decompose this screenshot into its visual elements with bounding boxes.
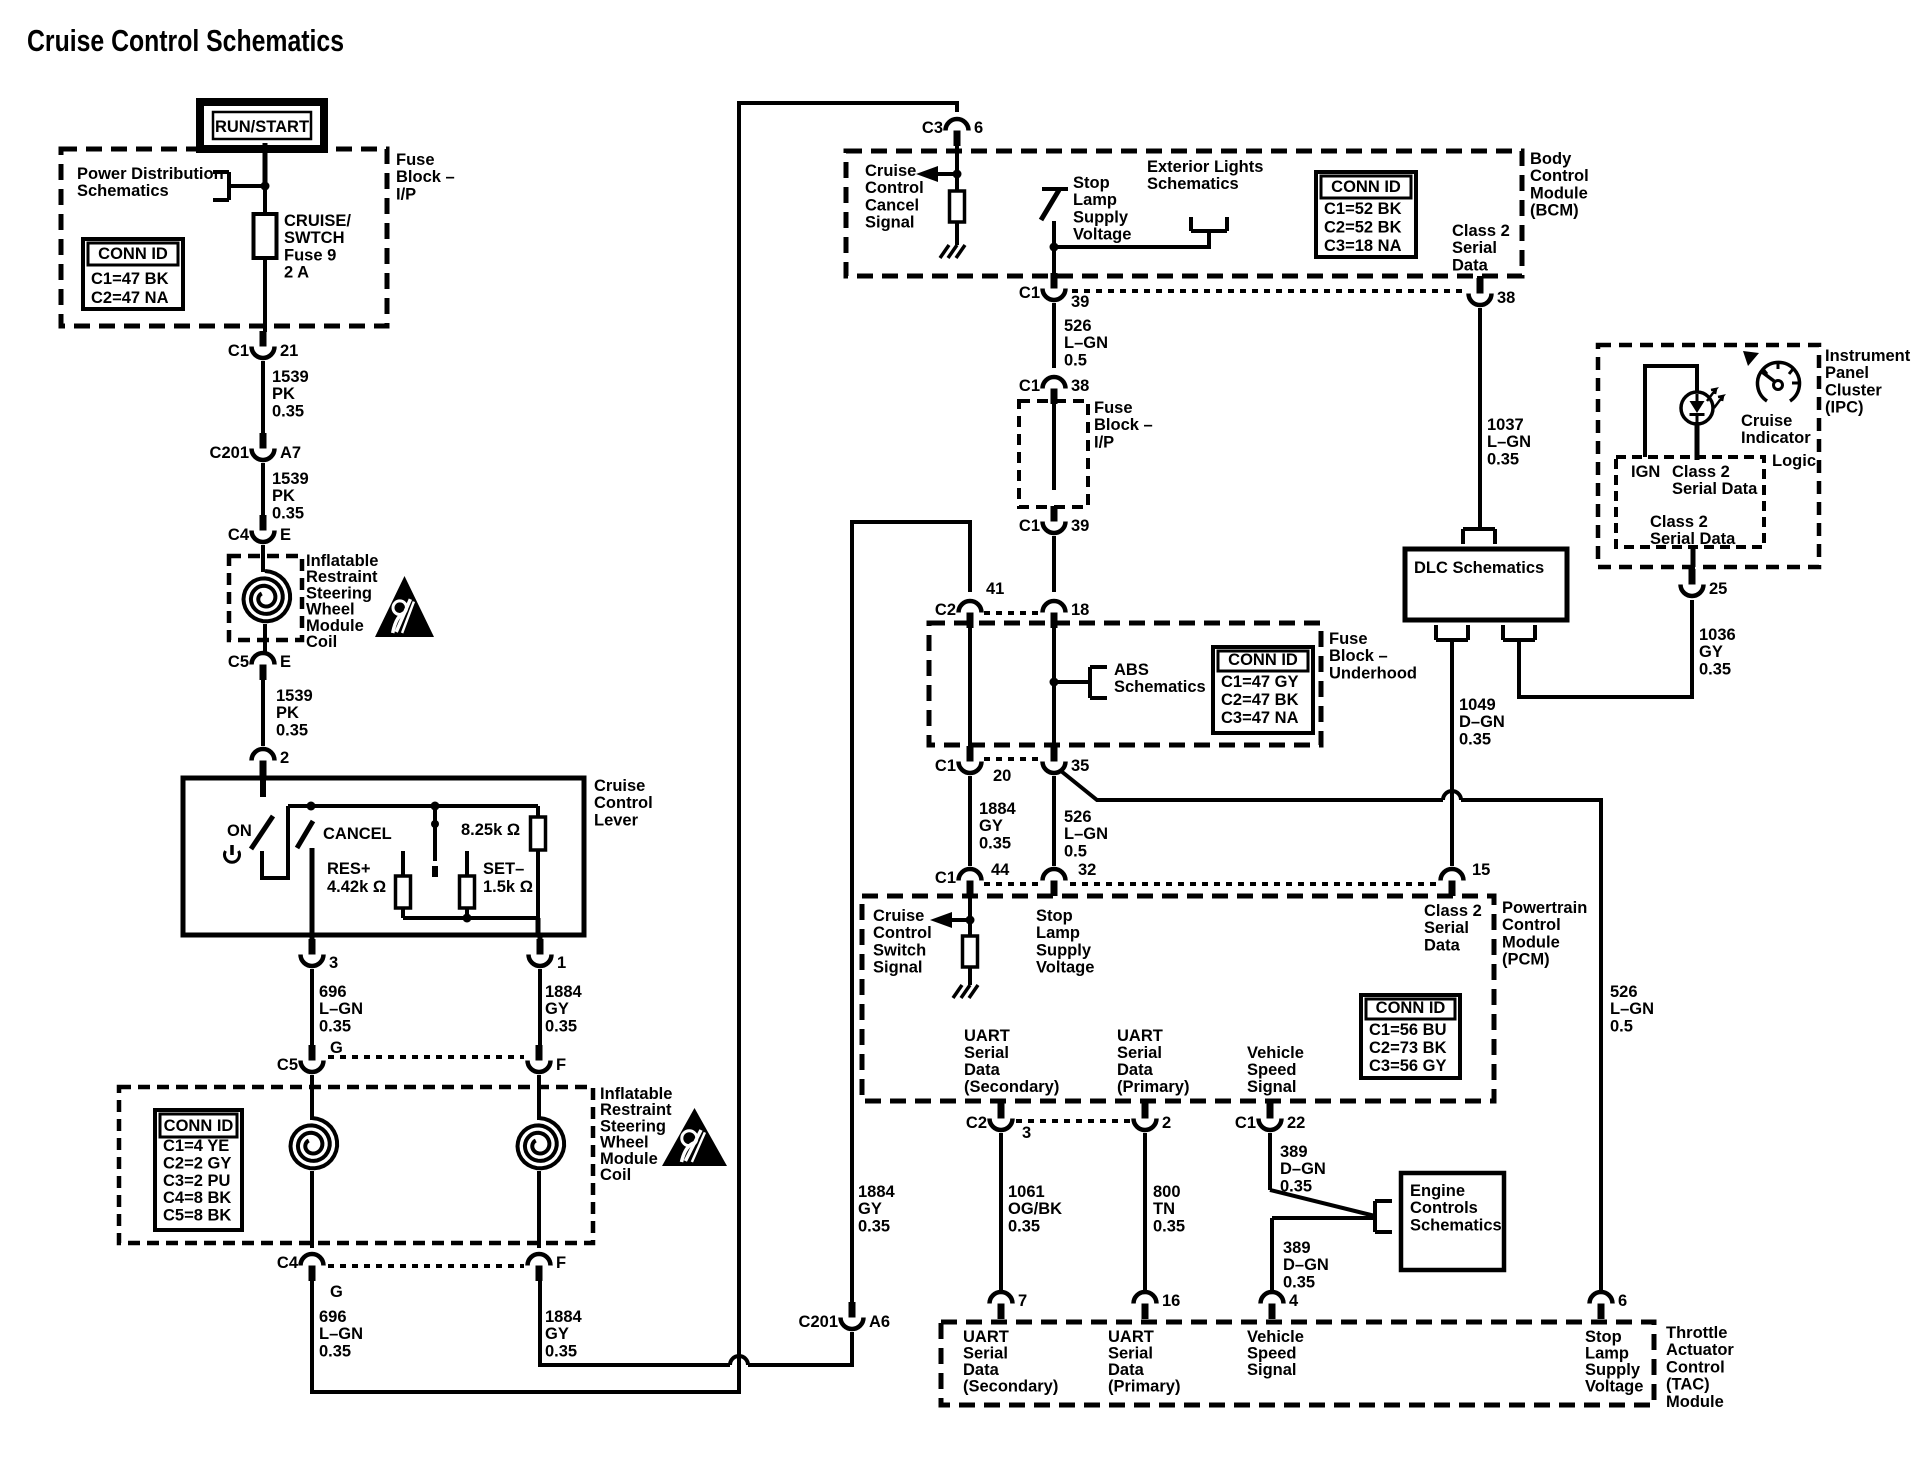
svg-text:C4=8 BK: C4=8 BK bbox=[163, 1189, 231, 1207]
svg-text:0.35: 0.35 bbox=[1487, 450, 1519, 468]
resistor PCM switch signal bbox=[963, 936, 978, 967]
svg-text:L–GN: L–GN bbox=[1487, 433, 1531, 451]
svg-text:L–GN: L–GN bbox=[319, 1000, 363, 1018]
svg-text:Coil: Coil bbox=[306, 633, 337, 651]
wire 1061 OG/BK bbox=[999, 1133, 1003, 1291]
svg-text:2: 2 bbox=[1162, 1114, 1171, 1132]
svg-text:C1: C1 bbox=[1235, 1114, 1256, 1132]
svg-text:PK: PK bbox=[276, 704, 299, 722]
resistor 4.42k RES+ bbox=[396, 876, 411, 908]
svg-text:38: 38 bbox=[1071, 377, 1089, 395]
wire 18 through underhood bbox=[1052, 628, 1056, 746]
svg-text:Control: Control bbox=[873, 924, 932, 942]
connector lever pin 2 bbox=[252, 749, 290, 776]
svg-text:(IPC): (IPC) bbox=[1825, 399, 1864, 417]
module box Fuse Block - Underhood bbox=[929, 623, 1321, 745]
wire RUN/START to fuse bbox=[263, 143, 268, 186]
svg-text:D–GN: D–GN bbox=[1280, 1160, 1326, 1178]
svg-text:CONN ID: CONN ID bbox=[98, 245, 168, 263]
svg-text:Vehicle: Vehicle bbox=[1247, 1328, 1304, 1346]
label Class 2 Serial Data (IPC lower) bbox=[1650, 513, 1736, 548]
svg-text:Stop: Stop bbox=[1585, 1328, 1622, 1346]
connector dashed line C1-39 to 38 bbox=[1072, 289, 1464, 293]
svg-text:UART: UART bbox=[1108, 1328, 1154, 1346]
svg-text:Serial: Serial bbox=[1108, 1345, 1153, 1363]
svg-text:Cruise: Cruise bbox=[594, 777, 645, 795]
wire C201-A6 to C2-41 bbox=[852, 522, 970, 1302]
wire pin1 to F bbox=[538, 969, 542, 1046]
svg-text:Powertrain: Powertrain bbox=[1502, 899, 1587, 917]
svg-text:Module: Module bbox=[1502, 933, 1560, 951]
svg-text:0.35: 0.35 bbox=[858, 1217, 890, 1235]
wire coil lower-right out bbox=[537, 1171, 541, 1248]
svg-text:Block –: Block – bbox=[396, 168, 455, 186]
wire to exterior lights bbox=[1054, 231, 1209, 247]
wire ON lower contact loop bbox=[262, 806, 288, 878]
switch ON blade bbox=[251, 816, 273, 849]
svg-text:C5=8 BK: C5=8 BK bbox=[163, 1207, 231, 1225]
connector BCM pin 38 bbox=[1469, 278, 1516, 307]
svg-text:Signal: Signal bbox=[873, 959, 923, 977]
svg-text:C2=47 NA: C2=47 NA bbox=[91, 289, 169, 307]
ground BCM bbox=[940, 245, 965, 258]
svg-text:G: G bbox=[330, 1283, 343, 1301]
svg-text:(Primary): (Primary) bbox=[1117, 1078, 1189, 1096]
svg-text:DLC Schematics: DLC Schematics bbox=[1414, 559, 1544, 577]
LED emission arrows bbox=[1707, 389, 1723, 408]
wire SET to rail bbox=[465, 908, 469, 918]
connector C1 pin 38 (fuse block IP) bbox=[1019, 377, 1089, 404]
svg-text:C1=4 YE: C1=4 YE bbox=[163, 1137, 229, 1155]
connector TAC pin 16 bbox=[1134, 1292, 1181, 1319]
connector C201 pin A7 bbox=[210, 433, 302, 462]
wire C5G into coil box bbox=[310, 1075, 314, 1120]
connector TAC pin 4 bbox=[1261, 1292, 1300, 1319]
svg-text:Class 2: Class 2 bbox=[1424, 902, 1482, 920]
connector C3 pin 6 bbox=[922, 119, 983, 146]
svg-text:0.5: 0.5 bbox=[1610, 1017, 1633, 1035]
junction power distribution tap bbox=[261, 182, 270, 191]
wire resistor to PCM ground bbox=[968, 967, 972, 985]
svg-text:25: 25 bbox=[1709, 580, 1727, 598]
svg-text:UART: UART bbox=[1117, 1027, 1163, 1045]
resistor 8.25k bbox=[531, 817, 546, 850]
svg-text:Block –: Block – bbox=[1329, 647, 1388, 665]
svg-text:4.42k Ω: 4.42k Ω bbox=[327, 878, 386, 896]
module box Cruise Control Lever bbox=[183, 778, 584, 935]
svg-text:2 A: 2 A bbox=[284, 264, 309, 282]
svg-text:Schematics: Schematics bbox=[77, 182, 169, 200]
svg-text:Logic: Logic bbox=[1772, 452, 1816, 470]
conn id table underhood C1=47GY C2=47BK C3=47NA bbox=[1213, 647, 1313, 733]
svg-text:39: 39 bbox=[1071, 293, 1089, 311]
svg-text:6: 6 bbox=[1618, 1292, 1627, 1310]
svg-text:Power Distribution: Power Distribution bbox=[77, 165, 224, 183]
connector C1 pin 21 bbox=[228, 331, 298, 360]
svg-text:16: 16 bbox=[1162, 1292, 1180, 1310]
connector C1 pin 20 bbox=[935, 746, 982, 775]
terminal stub DLC bottom right bbox=[1503, 625, 1535, 640]
connector PCM C1 pin 22 bbox=[1235, 1103, 1305, 1132]
wire through fuse block IP bbox=[1052, 403, 1056, 490]
wire coil to C5 bbox=[263, 624, 267, 655]
svg-text:1884: 1884 bbox=[545, 983, 583, 1001]
svg-text:7: 7 bbox=[1018, 1292, 1027, 1310]
svg-text:C2=47 BK: C2=47 BK bbox=[1221, 691, 1299, 709]
svg-text:F: F bbox=[556, 1254, 566, 1272]
svg-text:C3=18 NA: C3=18 NA bbox=[1324, 237, 1402, 255]
wire 39 to 18 bbox=[1052, 536, 1056, 592]
svg-text:TN: TN bbox=[1153, 1200, 1175, 1218]
wire IGN bbox=[1645, 366, 1697, 457]
svg-text:526: 526 bbox=[1064, 317, 1092, 335]
svg-text:1884: 1884 bbox=[979, 800, 1017, 818]
svg-text:D–GN: D–GN bbox=[1283, 1256, 1329, 1274]
junction center bus bbox=[431, 802, 440, 811]
junction rail SET bbox=[463, 914, 472, 923]
wire C201 to C4 bbox=[261, 463, 265, 516]
svg-text:1049: 1049 bbox=[1459, 696, 1496, 714]
wire 800 TN bbox=[1143, 1133, 1147, 1291]
module box SWM coil (upper) bbox=[229, 556, 302, 640]
svg-text:0.35: 0.35 bbox=[276, 721, 308, 739]
svg-text:44: 44 bbox=[991, 861, 1010, 879]
svg-text:Signal: Signal bbox=[865, 214, 915, 232]
connector C2 pin 41 bbox=[935, 601, 982, 628]
svg-text:Supply: Supply bbox=[1585, 1361, 1641, 1379]
svg-text:Schematics: Schematics bbox=[1410, 1216, 1502, 1234]
svg-text:1539: 1539 bbox=[272, 368, 309, 386]
connector dashed line 20-35 bbox=[984, 757, 1040, 761]
wire F into coil box bbox=[537, 1075, 541, 1120]
connector C5 pin G bbox=[277, 1045, 324, 1074]
svg-text:PK: PK bbox=[272, 487, 295, 505]
svg-text:Serial: Serial bbox=[963, 1345, 1008, 1363]
svg-text:C1=47 GY: C1=47 GY bbox=[1221, 673, 1299, 691]
connector C1 pin 39 (fuse block IP out) bbox=[1019, 506, 1089, 535]
wire BCM38 to DLC bbox=[1478, 308, 1482, 529]
svg-text:6: 6 bbox=[974, 119, 983, 137]
svg-text:3: 3 bbox=[1022, 1124, 1031, 1142]
label Class 2 Serial Data (IPC upper) bbox=[1672, 463, 1758, 498]
svg-text:1884: 1884 bbox=[545, 1308, 583, 1326]
svg-text:UART: UART bbox=[964, 1027, 1010, 1045]
wire rail to pin 1 bbox=[536, 918, 541, 933]
svg-text:L–GN: L–GN bbox=[319, 1325, 363, 1343]
connector C201 pin A6 bbox=[799, 1302, 891, 1331]
switch stop lamp bbox=[1041, 189, 1068, 220]
svg-text:0.35: 0.35 bbox=[1283, 1273, 1315, 1291]
svg-text:PK: PK bbox=[272, 385, 295, 403]
svg-text:39: 39 bbox=[1071, 517, 1089, 535]
box Engine Controls Schematics bbox=[1401, 1173, 1504, 1270]
svg-text:E: E bbox=[280, 526, 291, 544]
wire 389 to engine controls bbox=[1270, 1133, 1375, 1291]
arrow cruise control cancel signal bbox=[916, 166, 957, 182]
svg-text:Fuse: Fuse bbox=[396, 151, 435, 169]
svg-text:Voltage: Voltage bbox=[1585, 1378, 1643, 1396]
svg-text:CRUISE/: CRUISE/ bbox=[284, 212, 351, 230]
svg-text:C1=52 BK: C1=52 BK bbox=[1324, 200, 1402, 218]
svg-text:ABS: ABS bbox=[1114, 661, 1149, 679]
connector C1 pin 44 bbox=[935, 869, 982, 896]
module box Throttle Actuator Control TAC bbox=[941, 1322, 1654, 1405]
svg-text:(BCM): (BCM) bbox=[1530, 202, 1579, 220]
svg-text:D–GN: D–GN bbox=[1459, 713, 1505, 731]
connector IPC pin 25 bbox=[1681, 569, 1728, 598]
connector pin 35 bbox=[1043, 746, 1090, 775]
module box DLC Schematics bbox=[1405, 549, 1567, 620]
svg-text:I/P: I/P bbox=[1094, 433, 1114, 451]
connector BCM C1 pin 39 bbox=[1019, 273, 1089, 311]
wire stop lamp switch down bbox=[1052, 221, 1056, 281]
svg-text:Cluster: Cluster bbox=[1825, 381, 1882, 399]
module box Instrument Panel Cluster IPC bbox=[1598, 345, 1819, 567]
svg-text:Lamp: Lamp bbox=[1073, 191, 1117, 209]
wire 44 into PCM bbox=[968, 897, 972, 920]
svg-text:Stop: Stop bbox=[1036, 907, 1073, 925]
svg-text:(Secondary): (Secondary) bbox=[963, 1378, 1058, 1396]
wire bottom rail bbox=[403, 916, 538, 920]
wire C1-21 to C201 bbox=[261, 361, 265, 434]
wire 8.25k to rail bbox=[536, 850, 540, 918]
svg-text:Schematics: Schematics bbox=[1147, 175, 1239, 193]
svg-text:0.35: 0.35 bbox=[979, 834, 1011, 852]
svg-text:0.35: 0.35 bbox=[272, 402, 304, 420]
svg-text:SET–: SET– bbox=[483, 860, 524, 878]
connector dashed line C5-F bbox=[328, 1055, 524, 1059]
svg-text:20: 20 bbox=[993, 767, 1011, 785]
svg-text:35: 35 bbox=[1071, 757, 1089, 775]
switch CANCEL blade bbox=[297, 821, 313, 848]
resistor 1.5k SET- bbox=[460, 876, 475, 908]
resistor BCM cancel pull bbox=[950, 191, 965, 222]
svg-text:Control: Control bbox=[594, 794, 653, 812]
gauge icon speedometer bbox=[1743, 351, 1800, 401]
wire bus bbox=[288, 804, 538, 808]
module box Body Control Module BCM bbox=[846, 151, 1522, 276]
svg-text:CONN ID: CONN ID bbox=[1228, 651, 1298, 669]
wire PCM pin C2-3 stub bbox=[998, 1101, 1004, 1106]
svg-text:Cruise: Cruise bbox=[873, 907, 924, 925]
svg-text:C1: C1 bbox=[1019, 284, 1040, 302]
connector C4 pin G bbox=[277, 1254, 324, 1281]
svg-text:Supply: Supply bbox=[1036, 941, 1092, 959]
svg-text:Class 2: Class 2 bbox=[1672, 463, 1730, 481]
svg-text:C2=52 BK: C2=52 BK bbox=[1324, 218, 1402, 236]
wire 41 through underhood bbox=[968, 628, 972, 746]
svg-text:0.35: 0.35 bbox=[319, 1017, 351, 1035]
svg-text:Speed: Speed bbox=[1247, 1345, 1297, 1363]
svg-text:38: 38 bbox=[1497, 289, 1515, 307]
svg-text:L–GN: L–GN bbox=[1610, 1000, 1654, 1018]
svg-text:C1: C1 bbox=[228, 342, 249, 360]
svg-text:C2=2 GY: C2=2 GY bbox=[163, 1154, 231, 1172]
svg-text:Lever: Lever bbox=[594, 811, 639, 829]
svg-text:800: 800 bbox=[1153, 1183, 1181, 1201]
svg-text:Serial Data: Serial Data bbox=[1672, 480, 1758, 498]
svg-text:Serial: Serial bbox=[1424, 919, 1469, 937]
svg-text:C1: C1 bbox=[1019, 517, 1040, 535]
svg-text:0.35: 0.35 bbox=[319, 1342, 351, 1360]
svg-text:Stop: Stop bbox=[1073, 174, 1110, 192]
junction exterior lights tap bbox=[1050, 243, 1059, 252]
svg-text:3: 3 bbox=[329, 954, 338, 972]
wire 35 to 32 bbox=[1052, 776, 1056, 866]
svg-text:696: 696 bbox=[319, 1308, 347, 1326]
svg-text:0.35: 0.35 bbox=[1153, 1217, 1185, 1235]
svg-text:Class 2: Class 2 bbox=[1452, 222, 1510, 240]
svg-text:E: E bbox=[280, 653, 291, 671]
label Cruise Indicator Logic bbox=[1741, 412, 1816, 470]
svg-text:(PCM): (PCM) bbox=[1502, 951, 1550, 969]
svg-text:Block –: Block – bbox=[1094, 416, 1153, 434]
conn id table BCM C1=52BK C2=52BK C3=18NA bbox=[1316, 172, 1416, 257]
wire bus to 8.25k resistor bbox=[536, 806, 540, 818]
wire coil lower-left out bbox=[310, 1171, 314, 1248]
svg-text:1.5k Ω: 1.5k Ω bbox=[483, 878, 533, 896]
svg-text:Signal: Signal bbox=[1247, 1361, 1297, 1379]
svg-text:1884: 1884 bbox=[858, 1183, 896, 1201]
svg-text:RES+: RES+ bbox=[327, 860, 371, 878]
junction ABS tap bbox=[1050, 678, 1059, 687]
wire C3-6 into BCM bbox=[955, 146, 959, 174]
svg-text:Fuse: Fuse bbox=[1094, 399, 1133, 417]
svg-text:Data: Data bbox=[1452, 256, 1489, 274]
svg-text:CONN ID: CONN ID bbox=[1376, 999, 1446, 1017]
svg-text:(TAC): (TAC) bbox=[1666, 1376, 1710, 1394]
wire DLC to IPC 25 (1036 GY) bbox=[1519, 600, 1692, 697]
svg-text:C3=2 PU: C3=2 PU bbox=[163, 1172, 230, 1190]
svg-text:389: 389 bbox=[1280, 1143, 1308, 1161]
svg-text:Cruise: Cruise bbox=[1741, 412, 1792, 430]
svg-text:(Primary): (Primary) bbox=[1108, 1378, 1180, 1396]
wire 39 to 38 bbox=[1052, 303, 1056, 368]
svg-text:Data: Data bbox=[1424, 936, 1461, 954]
wire LED to logic box bbox=[1695, 422, 1700, 460]
connector lever pin 1 bbox=[529, 939, 567, 972]
wire PCM pin C1-22 stub bbox=[1267, 1101, 1273, 1106]
svg-text:Class 2: Class 2 bbox=[1650, 513, 1708, 531]
svg-text:C201: C201 bbox=[799, 1313, 838, 1331]
arrow cruise control switch signal bbox=[930, 912, 970, 928]
svg-text:Body: Body bbox=[1530, 150, 1572, 168]
reference bracket Engine Controls bbox=[1375, 1201, 1392, 1232]
svg-text:389: 389 bbox=[1283, 1239, 1311, 1257]
module box SWM coil (lower) bbox=[119, 1087, 593, 1243]
svg-text:Underhood: Underhood bbox=[1329, 664, 1417, 682]
wire fuse to C1 bbox=[263, 258, 267, 332]
warning triangle airbag (lower) bbox=[662, 1108, 727, 1166]
svg-text:Signal: Signal bbox=[1247, 1078, 1297, 1096]
module box Powertrain Control Module PCM bbox=[862, 896, 1494, 1101]
power source box RUN/START bbox=[200, 102, 324, 149]
connector C5 pin E bbox=[228, 653, 291, 680]
svg-text:GY: GY bbox=[545, 1000, 569, 1018]
conn id table coil C1=4YE C2=2GY C3=2PU C4=8BK C5=8BK bbox=[155, 1110, 242, 1230]
reference bracket Exterior Lights bbox=[1191, 217, 1227, 231]
svg-text:1037: 1037 bbox=[1487, 416, 1524, 434]
svg-text:(Secondary): (Secondary) bbox=[964, 1078, 1059, 1096]
svg-text:Schematics: Schematics bbox=[1114, 678, 1206, 696]
svg-text:0.35: 0.35 bbox=[545, 1342, 577, 1360]
svg-text:C1=47 BK: C1=47 BK bbox=[91, 270, 169, 288]
svg-text:Exterior Lights: Exterior Lights bbox=[1147, 158, 1263, 176]
ground PCM bbox=[953, 985, 978, 998]
connector PCM pin 2 bbox=[1134, 1103, 1172, 1132]
connector C4 pin E bbox=[228, 515, 291, 544]
wire cancel contact to pin 3 bbox=[310, 848, 315, 933]
svg-text:526: 526 bbox=[1610, 983, 1638, 1001]
svg-text:Data: Data bbox=[963, 1361, 1000, 1379]
svg-text:21: 21 bbox=[280, 342, 298, 360]
wire C5 to lever pin2 bbox=[261, 680, 265, 746]
svg-text:C4: C4 bbox=[228, 526, 250, 544]
svg-text:GY: GY bbox=[979, 817, 1003, 835]
conn id table C1=47 BK C2=47 NA bbox=[83, 239, 183, 309]
svg-text:C3=56 GY: C3=56 GY bbox=[1369, 1057, 1447, 1075]
connector TAC pin 7 bbox=[990, 1292, 1028, 1319]
svg-text:ON: ON bbox=[227, 822, 252, 840]
svg-text:C1: C1 bbox=[1019, 377, 1040, 395]
connector dashed line 3-2 bbox=[1016, 1119, 1130, 1123]
connector TAC pin 6 bbox=[1590, 1292, 1628, 1319]
svg-text:C5: C5 bbox=[277, 1056, 298, 1074]
svg-text:GY: GY bbox=[858, 1200, 882, 1218]
svg-text:IGN: IGN bbox=[1631, 463, 1660, 481]
reference bracket Power Distribution bbox=[213, 172, 263, 200]
svg-text:Vehicle: Vehicle bbox=[1247, 1044, 1304, 1062]
wire IPC25 stub bbox=[1689, 567, 1695, 571]
svg-text:1: 1 bbox=[557, 954, 566, 972]
power icon bbox=[225, 845, 240, 862]
svg-text:18: 18 bbox=[1071, 601, 1089, 619]
svg-text:32: 32 bbox=[1078, 861, 1096, 879]
svg-text:0.35: 0.35 bbox=[545, 1017, 577, 1035]
svg-text:OG/BK: OG/BK bbox=[1008, 1200, 1062, 1218]
wire lever pin1 stub bbox=[538, 933, 543, 948]
indicator LED cruise bbox=[1681, 392, 1713, 424]
svg-text:Supply: Supply bbox=[1073, 208, 1129, 226]
wire C4 to coil bbox=[261, 545, 265, 572]
svg-text:Engine: Engine bbox=[1410, 1182, 1465, 1200]
svg-text:Voltage: Voltage bbox=[1073, 226, 1131, 244]
svg-text:CONN ID: CONN ID bbox=[164, 1117, 234, 1135]
junction switch signal bbox=[966, 916, 975, 925]
svg-text:C1: C1 bbox=[935, 757, 956, 775]
svg-text:0.5: 0.5 bbox=[1064, 842, 1087, 860]
svg-text:Lamp: Lamp bbox=[1585, 1345, 1629, 1363]
svg-text:A6: A6 bbox=[869, 1313, 890, 1331]
svg-text:1539: 1539 bbox=[272, 470, 309, 488]
coil SWM (lower right) bbox=[518, 1118, 565, 1168]
connector PCM pin 15 bbox=[1441, 869, 1464, 896]
svg-text:Data: Data bbox=[1108, 1361, 1145, 1379]
svg-text:Throttle: Throttle bbox=[1666, 1324, 1727, 1342]
svg-text:Cancel: Cancel bbox=[865, 196, 919, 214]
svg-text:F: F bbox=[556, 1056, 566, 1074]
svg-text:2: 2 bbox=[280, 749, 289, 767]
module box Fuse Block - I/P bbox=[61, 149, 387, 326]
svg-text:C3: C3 bbox=[922, 119, 943, 137]
svg-text:Coil: Coil bbox=[600, 1166, 631, 1184]
svg-text:8.25k Ω: 8.25k Ω bbox=[461, 821, 520, 839]
wire to ABS bbox=[1054, 680, 1090, 684]
svg-text:C1: C1 bbox=[935, 869, 956, 887]
conn id table PCM C1=56BU C2=73BK C3=56GY bbox=[1361, 995, 1460, 1078]
svg-text:L–GN: L–GN bbox=[1064, 825, 1108, 843]
connector dashed line 44-32-15 bbox=[984, 882, 1436, 886]
